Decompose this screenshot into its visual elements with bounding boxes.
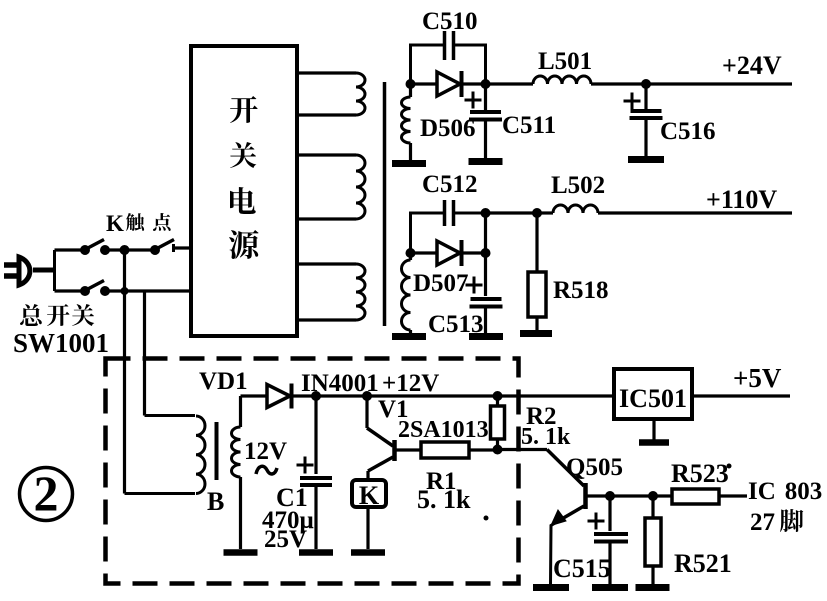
wire drop left	[123, 250, 126, 494]
node D507 cathode	[481, 248, 491, 258]
svg-text:K: K	[106, 211, 124, 236]
transformer B core	[215, 422, 219, 480]
capacitor C516	[644, 84, 647, 109]
switch SW1001 lower pole	[80, 286, 90, 296]
svg-text:5. 1k: 5. 1k	[521, 424, 571, 450]
junction node live	[120, 245, 130, 255]
node R518	[532, 208, 542, 218]
transistor Q505	[583, 483, 588, 509]
node C1	[311, 391, 321, 401]
inductor L502	[553, 205, 598, 213]
ground C511	[469, 158, 503, 165]
transformer B primary coil	[196, 416, 205, 494]
capacitor C512	[411, 213, 444, 253]
svg-text:K: K	[359, 481, 380, 510]
capacitor C513	[484, 253, 487, 296]
diode VD1	[241, 394, 268, 397]
wire plug split	[53, 250, 56, 291]
capacitor C1	[314, 396, 317, 474]
svg-text:+24V: +24V	[722, 51, 782, 80]
label ~	[256, 466, 277, 474]
ground C513	[469, 333, 503, 340]
wire IC501 out	[692, 394, 790, 397]
diode D506	[411, 82, 438, 85]
figure number ②	[20, 468, 73, 521]
transistor V1	[365, 396, 368, 428]
svg-text:D506: D506	[420, 115, 476, 142]
ground R518	[520, 330, 552, 337]
svg-text:SW1001: SW1001	[13, 328, 109, 358]
ground IC501	[652, 419, 655, 440]
svg-text:L502: L502	[551, 172, 605, 199]
svg-text:D507: D507	[413, 270, 469, 297]
ground secondary B	[392, 333, 426, 340]
svg-text:12V: 12V	[244, 438, 287, 465]
relay coil K	[352, 480, 386, 507]
svg-text:C515: C515	[553, 554, 611, 583]
node C516	[641, 79, 651, 89]
ground C516	[628, 156, 664, 163]
node top secondary	[406, 79, 416, 89]
svg-text:IC803: IC803	[748, 478, 822, 505]
secondary B coil	[409, 253, 412, 260]
wire C512 to D507	[484, 213, 487, 253]
svg-text:R521: R521	[674, 549, 732, 578]
ground secondary A	[392, 160, 426, 167]
svg-text:+12V: +12V	[382, 370, 439, 397]
stray mark 2	[727, 464, 732, 469]
svg-text:R523: R523	[671, 459, 729, 488]
transformer T primary winding 2	[297, 153, 356, 156]
ground R521	[636, 584, 670, 591]
capacitor C515	[608, 496, 611, 531]
node C515	[605, 491, 615, 501]
svg-text:B: B	[207, 487, 224, 516]
transformer B secondary coil	[239, 396, 242, 427]
AC plug P1	[4, 262, 18, 268]
resistor R518	[535, 213, 538, 272]
label 开关电源 vertical	[230, 96, 258, 123]
inductor L501	[486, 82, 534, 85]
regulator IC501	[614, 369, 692, 419]
wire lower to box	[107, 289, 191, 292]
resistor R523	[672, 489, 719, 504]
wire drop right	[143, 291, 146, 416]
wire +12V rail	[316, 394, 614, 397]
transformer T primary winding 1	[297, 71, 356, 74]
svg-text:C511: C511	[502, 112, 556, 139]
transformer T secondary winding A	[409, 84, 412, 97]
node R2 bottom	[493, 445, 503, 455]
diode D507	[411, 251, 438, 254]
transformer T primary winding 3	[297, 262, 356, 265]
resistor R521	[651, 496, 654, 518]
node mid secondary	[406, 248, 416, 258]
ground C1	[299, 549, 333, 556]
node V1 collector	[362, 391, 372, 401]
svg-text:27: 27	[750, 509, 775, 536]
wire collector rail	[610, 494, 672, 497]
svg-text:C512: C512	[422, 171, 478, 198]
svg-text:VD1: VD1	[199, 368, 248, 395]
wire upper to K contact	[107, 248, 152, 251]
ground transformer B	[224, 549, 258, 556]
transformer T core	[383, 82, 387, 326]
switch K contact	[150, 245, 160, 255]
ground C515	[592, 584, 628, 591]
wire base Q505	[498, 448, 548, 451]
wire rail 110	[486, 211, 538, 214]
svg-text:C516: C516	[660, 118, 716, 145]
secondary A coil	[402, 97, 411, 143]
svg-text:C510: C510	[422, 8, 478, 35]
capacitor C511	[484, 84, 487, 110]
svg-text:R518: R518	[553, 277, 609, 304]
dashed box standby supply	[106, 359, 519, 584]
svg-text:Q505: Q505	[566, 454, 623, 481]
svg-text:L501: L501	[538, 48, 592, 75]
svg-text:+5V: +5V	[733, 363, 782, 393]
junction crossing	[121, 287, 129, 295]
svg-text:+110V: +110V	[706, 185, 777, 214]
resistor R1	[421, 442, 469, 458]
ground Q505 emitter	[533, 584, 569, 591]
node D506 cathode	[481, 79, 491, 89]
label main switch 总开关	[20, 304, 42, 326]
svg-text:25V: 25V	[264, 526, 307, 553]
svg-text:5. 1k: 5. 1k	[417, 485, 471, 514]
node R2 top	[493, 391, 503, 401]
node R521	[648, 491, 658, 501]
node C512 right	[481, 208, 491, 218]
svg-text:2: 2	[34, 465, 59, 521]
svg-text:IC501: IC501	[619, 384, 687, 413]
svg-text:2SA1013: 2SA1013	[398, 417, 489, 443]
resistor R2	[496, 396, 499, 407]
capacitor C510	[411, 45, 444, 84]
switching power supply block 开关电源	[191, 46, 297, 336]
switch SW1001 upper pole	[80, 245, 90, 255]
stray mark	[484, 516, 489, 521]
ground K	[351, 549, 385, 556]
